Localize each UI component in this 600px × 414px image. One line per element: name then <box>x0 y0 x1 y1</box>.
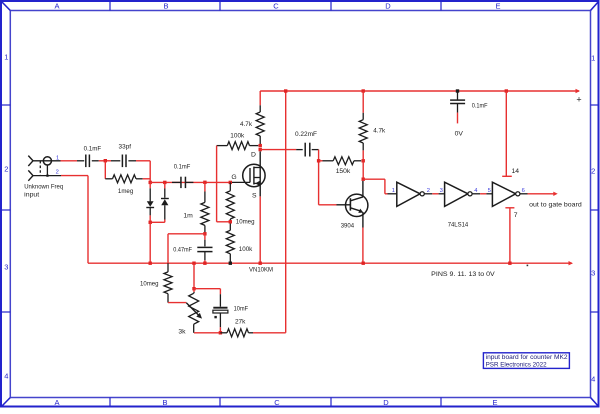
svg-text:1: 1 <box>392 188 395 194</box>
svg-text:input: input <box>24 192 39 199</box>
svg-text:A: A <box>54 398 59 407</box>
svg-text:VN10KM: VN10KM <box>249 266 273 273</box>
svg-text:3: 3 <box>591 269 595 278</box>
svg-text:+: + <box>576 95 581 105</box>
svg-text:150k: 150k <box>336 168 351 175</box>
svg-text:1meg: 1meg <box>118 188 134 195</box>
svg-text:D: D <box>383 398 389 407</box>
svg-text:6: 6 <box>522 188 525 194</box>
svg-text:0.1mF: 0.1mF <box>472 103 488 110</box>
svg-text:0.22mF: 0.22mF <box>295 131 317 138</box>
svg-text:10mF: 10mF <box>234 306 249 313</box>
svg-text:3: 3 <box>440 188 443 194</box>
svg-text:4: 4 <box>4 372 8 381</box>
svg-text:C: C <box>274 398 280 407</box>
svg-text:0.1mF: 0.1mF <box>174 163 191 170</box>
svg-text:E: E <box>492 398 497 407</box>
svg-text:0V: 0V <box>455 130 464 137</box>
svg-text:33pf: 33pf <box>119 143 132 150</box>
svg-text:2: 2 <box>4 165 8 174</box>
svg-text:4: 4 <box>591 375 595 384</box>
svg-text:74LS14: 74LS14 <box>448 221 469 228</box>
svg-text:3k: 3k <box>178 328 186 335</box>
svg-text:out to gate board: out to gate board <box>529 202 582 209</box>
svg-text:PINS 9. 11. 13 to 0V: PINS 9. 11. 13 to 0V <box>431 271 495 278</box>
svg-text:4.7k: 4.7k <box>373 128 386 135</box>
svg-text:Unknown Freq: Unknown Freq <box>24 184 63 191</box>
svg-text:10meg: 10meg <box>140 280 159 287</box>
svg-text:A: A <box>54 1 59 10</box>
svg-text:D: D <box>251 151 256 158</box>
svg-text:10meg: 10meg <box>236 218 255 225</box>
svg-text:0.47mF: 0.47mF <box>173 246 192 253</box>
svg-text:3: 3 <box>4 263 8 272</box>
svg-text:1: 1 <box>56 155 59 161</box>
svg-text:G: G <box>231 174 236 181</box>
svg-text:4.7k: 4.7k <box>240 121 253 128</box>
svg-text:B: B <box>163 1 168 10</box>
svg-text:input board for counter MK2: input board for counter MK2 <box>486 354 568 361</box>
svg-text:3904: 3904 <box>341 222 355 229</box>
svg-text:2: 2 <box>56 169 59 175</box>
svg-text:7: 7 <box>514 212 518 219</box>
svg-text:PSR Electronics 2022: PSR Electronics 2022 <box>486 361 547 368</box>
svg-text:C: C <box>273 1 279 10</box>
svg-text:E: E <box>495 1 500 10</box>
svg-text:S: S <box>252 193 257 200</box>
svg-text:2: 2 <box>427 188 430 194</box>
svg-text:27k: 27k <box>235 318 246 325</box>
svg-text:1: 1 <box>591 54 595 63</box>
svg-text:1: 1 <box>4 53 8 62</box>
svg-text:14: 14 <box>512 168 520 175</box>
svg-text:D: D <box>385 1 391 10</box>
svg-text:1m: 1m <box>183 212 193 219</box>
svg-text:100k: 100k <box>239 246 253 253</box>
svg-text:B: B <box>162 398 167 407</box>
svg-text:0.1mF: 0.1mF <box>84 146 102 153</box>
svg-text:2: 2 <box>591 167 595 176</box>
svg-text:100k: 100k <box>230 132 245 139</box>
svg-text:5: 5 <box>488 188 491 194</box>
